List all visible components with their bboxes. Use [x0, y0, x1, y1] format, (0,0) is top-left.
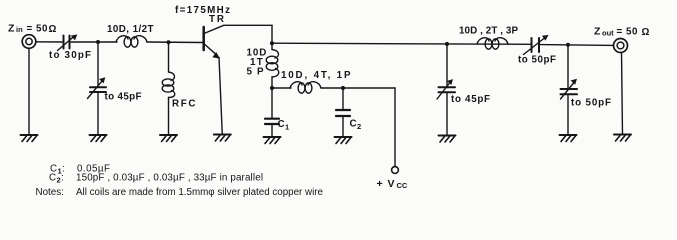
wire J1 down to variable cap [97, 42, 99, 86]
wire J4 to coil L3 [272, 87, 291, 89]
ground under emitter [214, 135, 231, 142]
svg-text:All coils are made from 1.5mmφ: All coils are made from 1.5mmφ silver pl… [76, 187, 324, 198]
label to 30pF [49, 50, 91, 61]
ground under 50pF right [560, 135, 577, 142]
label C1 [278, 119, 290, 132]
svg-text:Z: Z [594, 26, 601, 38]
ground under C2 [335, 137, 352, 144]
wire J2 down to RFC [168, 42, 170, 72]
capacitor trimmer to 50pF series [531, 38, 533, 52]
svg-text:to 45pF: to 45pF [451, 94, 490, 105]
note C1 line [50, 164, 110, 176]
ground under output [614, 135, 631, 142]
inductor L2 10D 1T 5P vertical [271, 43, 273, 49]
label Zout=50ohm [594, 26, 650, 39]
svg-text:RFC: RFC [172, 99, 196, 110]
node junction J2 [167, 40, 171, 44]
svg-text:Z: Z [8, 23, 15, 35]
label TR [209, 14, 224, 25]
svg-text:to 50pF: to 50pF [518, 54, 556, 65]
label 10D, 1/2T [107, 24, 154, 35]
capacitor C2 [342, 88, 344, 110]
label to 50pF series [518, 54, 556, 65]
svg-text:+: + [377, 178, 383, 190]
svg-text:to 30pF: to 30pF [49, 50, 91, 61]
svg-text::: : [61, 173, 64, 184]
terminal Vcc [392, 167, 399, 174]
capacitor variable to 45pF right [439, 86, 456, 88]
svg-text:TR: TR [209, 14, 224, 25]
node junction J5 [445, 42, 449, 46]
wire collector bend down [271, 25, 273, 43]
svg-text:1: 1 [285, 123, 289, 132]
node junction J7 [566, 43, 570, 47]
node junction J6 [341, 86, 345, 90]
svg-text:C: C [278, 119, 285, 130]
wire trimmer to coil L1 [71, 41, 117, 43]
capacitor variable to 45pF left [90, 86, 106, 88]
svg-text:Ω: Ω [642, 27, 650, 38]
wire emitter down [219, 58, 222, 135]
transistor TR [202, 27, 205, 50]
label 10D , 2T , 3P [459, 26, 518, 37]
wire J6 to Vcc drop [343, 87, 395, 89]
svg-text:Ω: Ω [49, 24, 57, 35]
inductor L1 10D 1/2T [116, 36, 128, 42]
wire long rail to right [272, 43, 531, 44]
output terminal [614, 39, 628, 53]
inductor RFC [169, 72, 175, 81]
svg-text:= 50: = 50 [617, 27, 639, 38]
svg-text:CC: CC [397, 181, 408, 190]
svg-text:out: out [602, 28, 614, 37]
svg-text:in: in [16, 25, 23, 34]
label RFC [172, 99, 196, 110]
ground under 45pF right [439, 136, 456, 143]
wire output terminal down [622, 52, 623, 134]
wire L1 to base [147, 41, 203, 44]
wire J5 down to variable cap right 45pF [446, 44, 448, 86]
label to 50pF right [571, 98, 611, 109]
wire input terminal down to ground [28, 48, 30, 135]
svg-text:to 45pF: to 45pF [105, 92, 142, 103]
svg-text:to 50pF: to 50pF [571, 98, 611, 109]
label 10D 1T 5P [247, 48, 267, 78]
note C2 line [49, 173, 263, 185]
wire L3 to J6 [321, 87, 343, 89]
ground under RFC [160, 135, 177, 142]
node junction J4 [270, 86, 274, 90]
label to 45pF right [451, 94, 490, 105]
label 10D, 4T, 1P [281, 70, 351, 81]
wire J7 down to variable cap 50pF [567, 45, 569, 88]
ground under C1 [264, 137, 281, 144]
svg-text:150pF , 0.03µF , 0.03µF , 33µF: 150pF , 0.03µF , 0.03µF , 33µF in parall… [76, 173, 263, 184]
inductor L3 10D 4T 1P [290, 82, 302, 88]
svg-text:10D , 2T , 3P: 10D , 2T , 3P [459, 26, 518, 37]
svg-text:V: V [388, 178, 395, 190]
wire input to trimmer [36, 41, 62, 43]
capacitor trimmer to 30pF [63, 36, 65, 49]
svg-text:C: C [350, 119, 357, 130]
svg-text:Notes:: Notes: [36, 187, 64, 198]
input terminal [22, 35, 36, 49]
label Zin=50ohm [8, 23, 57, 36]
node junction J1 [96, 40, 100, 44]
wire trimmer to output [541, 44, 614, 47]
label f=175MHz [175, 5, 230, 16]
capacitor C1 [271, 88, 273, 118]
label C2 [350, 119, 362, 132]
wire Vcc vertical [394, 88, 396, 167]
label +Vcc [377, 178, 408, 190]
wire collector top [224, 24, 272, 26]
svg-text:2: 2 [357, 122, 361, 131]
svg-text:10D, 1/2T: 10D, 1/2T [107, 24, 154, 35]
svg-text:C: C [49, 173, 56, 184]
svg-text:10D, 4T, 1P: 10D, 4T, 1P [281, 70, 351, 81]
node junction J3 [270, 41, 274, 45]
note Notes line [36, 187, 324, 198]
inductor L4 10D 2T 3P [477, 38, 489, 44]
ground input [21, 135, 38, 142]
capacitor variable to 50pF right [561, 88, 578, 90]
label to 45pF left [105, 92, 142, 103]
ground under 45pF left [90, 135, 107, 142]
svg-text:= 50: = 50 [27, 24, 49, 35]
